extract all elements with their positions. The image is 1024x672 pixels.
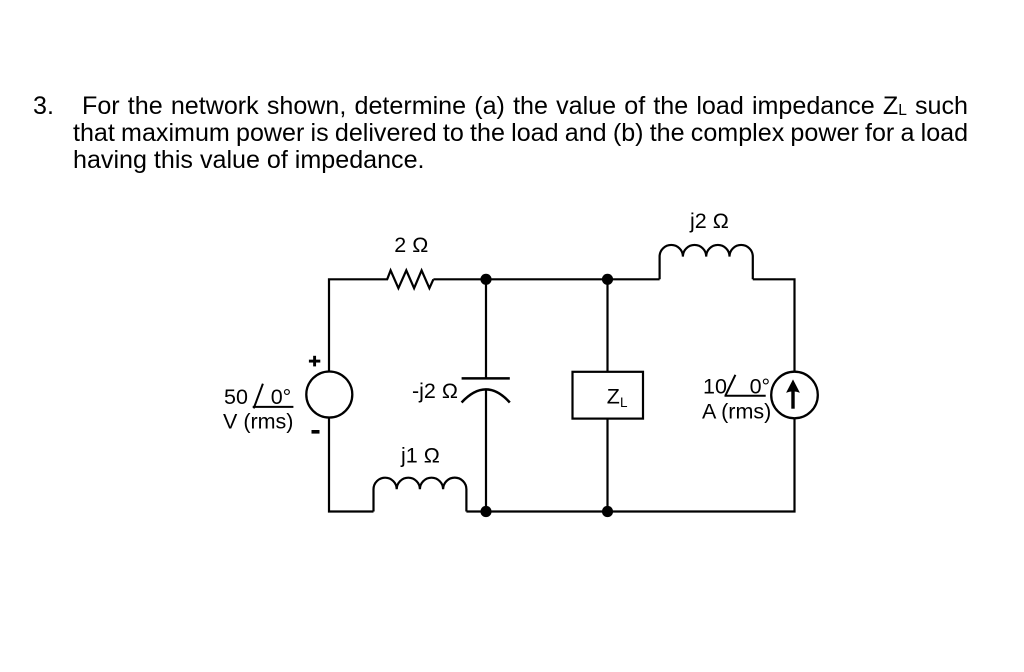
svg-text:j2 Ω: j2 Ω — [689, 209, 729, 233]
current source arrow — [786, 379, 800, 408]
label 2Ω — [394, 233, 428, 257]
load impedance ZL box — [573, 372, 644, 419]
problem text line 1 — [82, 93, 968, 125]
capacitor C1 -j2Ω plates — [462, 378, 510, 402]
label A (rms) — [702, 399, 771, 423]
svg-text:L: L — [620, 395, 628, 410]
inductor L2 j2Ω — [660, 245, 753, 279]
minus sign of voltage source — [312, 430, 320, 434]
plus sign of voltage source — [309, 356, 320, 367]
wire top-right corner to current source — [753, 279, 795, 372]
node dot top capacitor — [480, 274, 491, 285]
label -j2Ω — [412, 379, 458, 403]
wire ZL branch upper — [606, 279, 608, 372]
wire bottom middle segment — [486, 510, 608, 512]
svg-text:j1 Ω: j1 Ω — [400, 443, 440, 467]
wire top middle segment — [433, 278, 659, 280]
problem number 3. — [33, 93, 54, 120]
node dot bottom ZL — [602, 506, 613, 517]
svg-text:Z: Z — [607, 385, 620, 409]
inductor L1 j1Ω — [374, 478, 467, 512]
wire bottom segment to inductor — [466, 510, 486, 512]
label j2Ω — [689, 209, 729, 233]
node dot bottom capacitor — [480, 506, 491, 517]
svg-text:A (rms): A (rms) — [702, 399, 771, 423]
svg-text:0°: 0° — [271, 385, 292, 409]
wire capacitor branch lower — [485, 390, 487, 512]
svg-text:V (rms): V (rms) — [223, 410, 293, 434]
svg-text:50: 50 — [224, 385, 248, 409]
node dot top ZL — [602, 274, 613, 285]
wire ZL branch lower — [606, 419, 608, 512]
label V (rms) — [223, 410, 293, 434]
voltage source V1 circle — [306, 372, 352, 418]
resistor R1 2Ω zigzag — [387, 270, 433, 288]
angle symbol of current label — [725, 375, 766, 396]
wire capacitor branch upper — [485, 279, 487, 378]
wire right rail bottom — [608, 418, 795, 511]
wire left rail top and top-left segment — [329, 279, 388, 372]
angle symbol of voltage label — [253, 384, 294, 409]
label 10 angle 0 — [703, 375, 770, 399]
wire bottom-left corner up to voltage source — [329, 418, 374, 512]
svg-text:10: 10 — [703, 375, 727, 399]
label j1Ω — [400, 443, 440, 467]
svg-text:-j2 Ω: -j2 Ω — [412, 379, 458, 403]
problem text line 3 — [73, 147, 425, 174]
svg-text:2 Ω: 2 Ω — [394, 233, 428, 257]
problem text line 2 — [73, 120, 968, 147]
label ZL — [607, 385, 628, 410]
current source I1 circle — [771, 372, 818, 419]
label 50 angle 0 — [224, 385, 291, 409]
